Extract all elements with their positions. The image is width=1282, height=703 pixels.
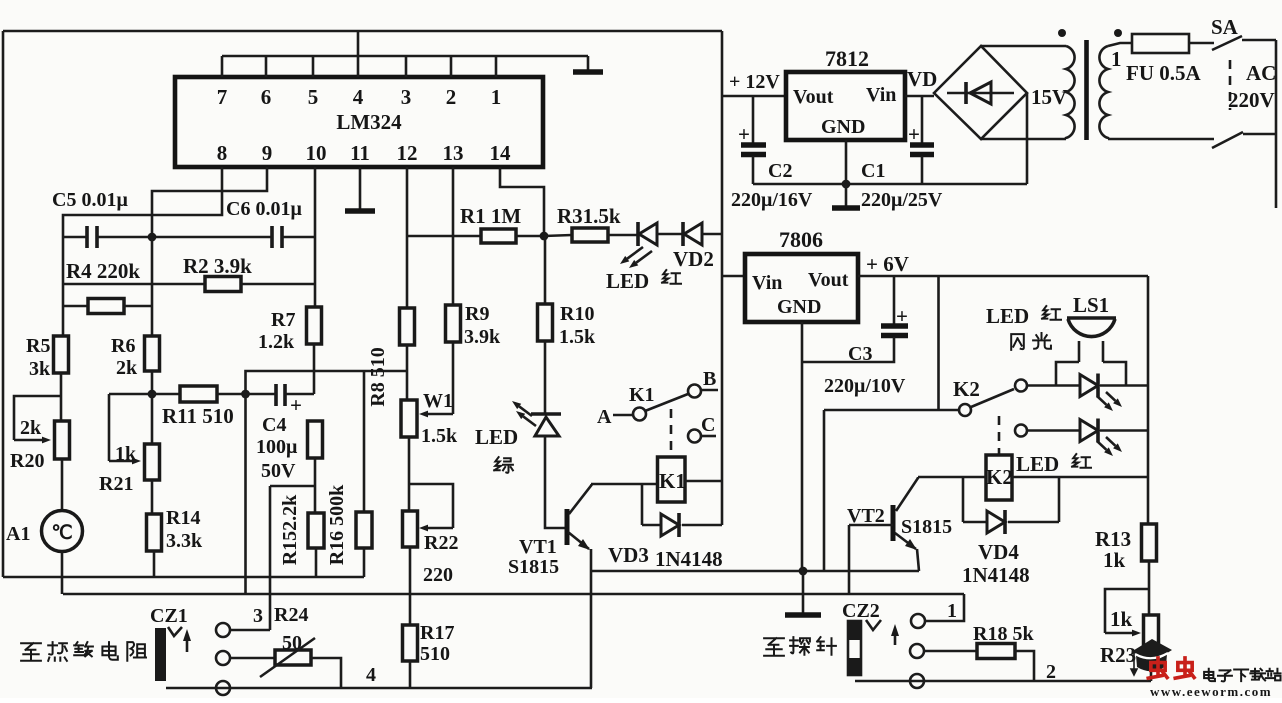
wire R16 down xyxy=(363,548,366,577)
watermark site char 4 xyxy=(1250,669,1265,681)
connector CZ2 hook contact xyxy=(866,620,881,630)
wire VT2 base column xyxy=(848,525,851,594)
wire corner to CZ1 pin3 column xyxy=(270,485,315,488)
transformer T1 core xyxy=(1084,40,1089,140)
diode VD4 xyxy=(987,511,1005,533)
resistor R4 xyxy=(88,299,124,314)
connector CZ1 pin bottom circle xyxy=(216,681,230,695)
wire mid row 2 xyxy=(63,593,964,596)
transistor VT2 base bar xyxy=(891,505,896,541)
wire collector row to K2 coil xyxy=(918,476,986,479)
wire fuse to SA xyxy=(1189,42,1214,45)
wire VD1 to VD2 xyxy=(657,233,684,236)
capacitor C6 xyxy=(272,226,282,248)
wire R18 right drop xyxy=(1015,651,1034,681)
potentiometer R23 xyxy=(1144,615,1159,648)
wire R11 row left xyxy=(109,393,180,396)
diode VD3 xyxy=(661,514,679,536)
svg-text:+ 12V: + 12V xyxy=(729,71,780,93)
svg-text:R31.5k: R31.5k xyxy=(557,204,621,228)
resistor R11 xyxy=(180,386,217,402)
wire rail to 7806 xyxy=(722,275,745,278)
LED2 emission arrow 2 xyxy=(1106,437,1115,446)
wire +6V row xyxy=(858,275,1148,278)
wire collector row to K1 xyxy=(591,483,657,486)
svg-text:VD3: VD3 xyxy=(608,543,649,567)
svg-text:R24: R24 xyxy=(274,604,308,626)
svg-text:R18 5k: R18 5k xyxy=(973,623,1034,645)
LED VD1 red xyxy=(636,222,640,246)
watermark site char 5 xyxy=(1266,669,1281,681)
transistor VT1 emitter arrowhead xyxy=(578,539,590,550)
potentiometer W1 wiper wire xyxy=(452,343,455,414)
svg-text:3.9k: 3.9k xyxy=(464,326,501,348)
wire W1 to R22 xyxy=(408,437,411,511)
svg-text:4: 4 xyxy=(366,664,376,686)
transformer phase dot secondary xyxy=(1058,29,1066,37)
potentiometer R21 xyxy=(145,444,160,480)
wire pin 4 to top frame xyxy=(357,31,360,77)
wire VT2 collector xyxy=(896,477,918,511)
wire R23 down xyxy=(1150,648,1153,681)
wire VT1 emitter xyxy=(568,532,589,549)
connector CZ1 jack body xyxy=(155,628,166,681)
resistor R5 xyxy=(54,336,69,373)
svg-text:2k: 2k xyxy=(116,357,138,379)
wire CZ2 pin1 xyxy=(925,594,964,621)
wire R4 row right xyxy=(124,305,152,308)
label zhi-re-min-dian-zu 5 xyxy=(127,642,146,661)
svg-text:C4: C4 xyxy=(262,414,286,436)
wire VT2 base xyxy=(849,524,893,527)
wire node to R3 xyxy=(544,235,572,236)
svg-text:Vin: Vin xyxy=(752,272,782,294)
wire VT1 collector xyxy=(569,484,592,514)
wire R8 to W1 xyxy=(406,345,409,400)
watermark site char 2 xyxy=(1218,670,1232,681)
svg-text:B: B xyxy=(703,368,716,390)
wire primary top to fuse xyxy=(1108,43,1132,46)
wire LED2 row xyxy=(1027,429,1080,432)
wire VD2 to rail xyxy=(702,233,722,236)
label zhi-re-min-dian-zu 1 xyxy=(21,643,41,661)
svg-text:11: 11 xyxy=(350,141,370,165)
potentiometer R23 bracket xyxy=(1105,589,1149,633)
wire C4 left xyxy=(245,393,276,396)
svg-text:GND: GND xyxy=(821,116,865,138)
wire R10 top xyxy=(544,236,547,304)
relay K2 contact circle 2 xyxy=(1015,425,1027,437)
wire VD3 row left xyxy=(642,524,661,527)
svg-text:A1: A1 xyxy=(6,523,30,545)
svg-text:Vout: Vout xyxy=(793,86,834,108)
wire VD4 row left xyxy=(963,521,987,524)
wire bridge to gnd row xyxy=(1026,93,1029,184)
ground power section xyxy=(845,184,848,208)
node R6-R11 xyxy=(148,390,157,399)
wire C2 top xyxy=(752,96,755,143)
svg-text:R17: R17 xyxy=(420,622,454,644)
wire pin 11 stub xyxy=(359,167,362,209)
wire VD3 row right xyxy=(682,524,722,527)
wire R7 to C4 node xyxy=(313,344,316,394)
wire R1 row left xyxy=(407,235,481,238)
wire R11 right xyxy=(217,393,245,396)
wire pin 6 stub xyxy=(265,56,268,77)
wire R12 to R15 xyxy=(314,486,317,513)
wire K2 pivot row xyxy=(824,409,958,412)
svg-text:VD: VD xyxy=(907,67,937,91)
svg-text:R16 500k: R16 500k xyxy=(326,484,348,565)
thermistor R24 xyxy=(275,650,311,665)
wire R17 down xyxy=(409,661,412,688)
svg-text:15V: 15V xyxy=(1031,85,1067,109)
svg-text:℃: ℃ xyxy=(51,523,72,544)
svg-text:R20: R20 xyxy=(10,450,44,472)
svg-text:+: + xyxy=(738,122,750,146)
resistor R18 xyxy=(977,644,1015,659)
wire R4 row left xyxy=(63,305,88,308)
bridge rectifier diamond xyxy=(934,46,1027,139)
resistor R10 xyxy=(538,304,553,341)
wire A stub xyxy=(613,414,633,417)
wire R1 to node xyxy=(516,235,544,238)
wire VD3 anode drop xyxy=(641,484,644,525)
svg-text:A: A xyxy=(597,406,612,428)
transformer phase dot primary xyxy=(1114,29,1122,37)
node C5-C6 junction xyxy=(148,233,157,242)
resistor R12 xyxy=(308,421,323,458)
wire K2 coil right row xyxy=(1012,476,1148,479)
label lv xyxy=(494,457,513,473)
label guang xyxy=(1033,333,1051,349)
svg-text:K1: K1 xyxy=(629,384,655,406)
svg-text:+: + xyxy=(290,393,302,417)
svg-text:C2: C2 xyxy=(768,160,792,182)
wire LED1 row xyxy=(1027,384,1080,387)
LED VD1 emission arrow 1 xyxy=(627,247,643,259)
wire gnd row power xyxy=(753,183,1027,186)
potentiometer R21 wiper arrow xyxy=(109,460,132,463)
potentiometer R22 xyxy=(403,511,418,547)
wire C5 to node xyxy=(97,236,272,239)
switch SA bottom blade xyxy=(1212,132,1243,148)
wire R3 to VD1 xyxy=(608,234,641,237)
wire VT2 emitter xyxy=(895,533,916,549)
svg-text:3: 3 xyxy=(401,85,412,109)
resistor R3 xyxy=(572,228,608,242)
label zhi-re-min-dian-zu 4 xyxy=(102,642,117,660)
relay coil K2 xyxy=(986,455,1012,500)
wire C1 bottom xyxy=(921,156,924,184)
connector CZ2 jack body xyxy=(848,621,861,675)
wire pin 3 stub xyxy=(405,56,408,77)
lamp LS1 stand xyxy=(1056,341,1126,385)
svg-text:50V: 50V xyxy=(261,460,296,482)
switch SA dashed link xyxy=(1229,60,1232,110)
label zhi-re-min-dian-zu 3 xyxy=(74,642,93,656)
svg-text:+: + xyxy=(896,304,908,328)
wire R24 right down xyxy=(311,658,341,688)
svg-text:220μ/10V: 220μ/10V xyxy=(824,375,906,397)
svg-text:R14: R14 xyxy=(166,507,200,529)
wire pin 12 to R8 xyxy=(406,167,409,308)
svg-text:LM324: LM324 xyxy=(336,110,402,134)
watermark site char 1 xyxy=(1204,669,1215,681)
svg-text:VD4: VD4 xyxy=(978,540,1019,564)
connector CZ2 pin 3 circle xyxy=(910,674,924,688)
svg-text:R10: R10 xyxy=(560,303,594,325)
svg-text:R21: R21 xyxy=(99,473,133,495)
svg-text:SA: SA xyxy=(1211,15,1239,39)
resistor R1 xyxy=(481,229,516,243)
svg-text:CZ2: CZ2 xyxy=(842,600,880,622)
svg-text:LED: LED xyxy=(475,425,518,449)
LED green symbol xyxy=(531,412,561,416)
connector CZ2 plug arrow xyxy=(894,631,897,645)
svg-text:R22: R22 xyxy=(424,532,458,554)
connector CZ2 pin 2 circle xyxy=(910,644,924,658)
svg-text:S1815: S1815 xyxy=(508,556,559,578)
wire 7812 GND pin xyxy=(845,140,848,184)
wire R13 to R23 xyxy=(1148,561,1151,615)
potentiometer R23 wiper arrow xyxy=(1105,632,1132,635)
svg-text:C6 0.01μ: C6 0.01μ xyxy=(226,198,302,220)
potentiometer R20 xyxy=(55,421,70,459)
svg-text:Vin: Vin xyxy=(866,84,896,106)
svg-text:3: 3 xyxy=(253,605,263,627)
wire top bus xyxy=(222,55,588,58)
resistor R8 xyxy=(400,308,415,345)
svg-text:R9: R9 xyxy=(465,303,489,325)
bridge rectifier internal diode xyxy=(947,92,1014,95)
potentiometer R21 bracket xyxy=(108,394,111,461)
svg-text:9: 9 xyxy=(262,141,273,165)
wire CZ1 pin3 to column xyxy=(230,629,270,632)
svg-text:LS1: LS1 xyxy=(1073,293,1109,317)
wire pin 9 xyxy=(152,167,267,237)
wire R14 down xyxy=(153,551,156,577)
wire pin 14 step xyxy=(500,167,544,236)
watermark site char 3 xyxy=(1234,670,1248,682)
relay K2 blade xyxy=(971,389,1014,407)
label zhi-tan-zhen 3 xyxy=(817,637,836,655)
svg-text:CZ1: CZ1 xyxy=(150,605,188,627)
svg-text:R11 510: R11 510 xyxy=(162,404,234,428)
svg-text:1.2k: 1.2k xyxy=(258,331,295,353)
wire rail to 7812 xyxy=(722,95,786,98)
connector CZ1 pin mid circle xyxy=(216,651,230,665)
svg-text:K2: K2 xyxy=(953,377,980,401)
relay K2 contact circle 1 xyxy=(1015,380,1027,392)
relay contact C circle xyxy=(688,430,701,443)
op-amp U1 LM324 body xyxy=(175,77,543,167)
svg-text:LED: LED xyxy=(986,304,1029,328)
relay contact A circle xyxy=(633,408,646,421)
wire CZ2 pin2 to R18 xyxy=(924,650,977,653)
label zhi-tan-zhen 2 xyxy=(790,637,810,655)
svg-text:GND: GND xyxy=(777,296,821,318)
wire pin 7 stub xyxy=(221,56,224,77)
wire C stub xyxy=(701,435,716,438)
svg-text:1.5k: 1.5k xyxy=(559,326,596,348)
wire C1 top xyxy=(921,96,924,143)
label zhi-tan-zhen 1 xyxy=(764,638,784,656)
wire top frame xyxy=(3,30,722,33)
svg-text:R7: R7 xyxy=(271,309,295,331)
wire C5 left xyxy=(63,236,87,239)
wire LED green to VT1 base xyxy=(545,436,566,528)
resistor R7 xyxy=(307,307,322,344)
svg-text:R1 1M: R1 1M xyxy=(460,204,521,228)
resistor R9 xyxy=(446,305,461,342)
wire node to R21 xyxy=(151,394,154,444)
svg-text:Vout: Vout xyxy=(808,269,849,291)
svg-text:LED: LED xyxy=(606,269,649,293)
wire R15 down xyxy=(315,548,318,577)
wire C6 right xyxy=(282,236,315,239)
wire +12V rail right xyxy=(721,31,724,525)
svg-text:100μ: 100μ xyxy=(256,436,298,458)
svg-text:12: 12 xyxy=(397,141,418,165)
wire R13 column top xyxy=(1147,276,1150,524)
wire pin 10 to R7 xyxy=(314,167,317,307)
wire row 371 xyxy=(246,371,408,394)
rheostat R20 wiper arrow xyxy=(14,439,42,442)
node ground junction xyxy=(799,567,808,576)
transistor VT2 emitter arrowhead xyxy=(905,539,917,550)
regulator 7806 body xyxy=(745,254,858,322)
wire SA to right edge top xyxy=(1242,39,1276,42)
svg-text:1k: 1k xyxy=(1103,548,1126,572)
svg-text:3k: 3k xyxy=(29,358,51,380)
label LED hong top 1 xyxy=(1042,306,1061,320)
resistor R2 xyxy=(205,277,241,292)
wire ground row left xyxy=(3,576,364,579)
wire 7806 GND column xyxy=(801,322,804,571)
svg-text:R6: R6 xyxy=(111,335,135,357)
wire C3 bottom xyxy=(802,337,894,362)
svg-text:6: 6 xyxy=(261,85,272,109)
ground at pin 11 xyxy=(345,208,375,214)
LED green emission arrow 2 xyxy=(523,416,536,426)
wire R12 to corner xyxy=(314,458,317,486)
wire VT1 emitter row xyxy=(591,570,919,573)
svg-text:S1815: S1815 xyxy=(901,516,952,538)
svg-text:1.5k: 1.5k xyxy=(421,425,458,447)
wire CZ1 bottom row xyxy=(166,687,592,690)
svg-text:R8 510: R8 510 xyxy=(367,347,389,406)
wire pin 8 xyxy=(63,167,222,336)
wire VD4 right rise xyxy=(1058,477,1061,522)
wire R22 to R17 xyxy=(409,547,412,625)
connector CZ1 pin 3 circle xyxy=(216,623,230,637)
svg-text:www.eeworm.com: www.eeworm.com xyxy=(1150,684,1272,698)
resistor R6 xyxy=(145,336,160,371)
resistor R16 xyxy=(356,512,372,548)
svg-text:14: 14 xyxy=(490,141,512,165)
wire K1 coil right to rail xyxy=(685,480,722,483)
transformer T1 primary winding xyxy=(1099,46,1108,139)
svg-text:R5: R5 xyxy=(26,335,50,357)
wire +6V to K2 pivot xyxy=(937,276,940,410)
wire R2 right xyxy=(241,283,315,286)
svg-text:W1: W1 xyxy=(423,390,453,412)
potentiometer R22 bracket xyxy=(409,484,453,528)
wire R5 to R20 node xyxy=(60,373,63,421)
node R11-C4 xyxy=(241,390,250,399)
potentiometer R22 wiper arrow xyxy=(428,527,453,530)
wire LED1 to R13 column xyxy=(1100,384,1148,387)
watermark chong 1 xyxy=(1148,658,1167,678)
wire C2 bottom xyxy=(752,156,755,184)
svg-text:2: 2 xyxy=(446,85,457,109)
label zhi-re-min-dian-zu 2 xyxy=(48,642,67,661)
switch SA top blade xyxy=(1212,36,1242,50)
node R1-R3-R10 xyxy=(540,232,549,241)
svg-text:220: 220 xyxy=(423,564,453,586)
wire C4 right xyxy=(285,393,314,396)
transformer T1 secondary winding xyxy=(981,46,1066,139)
svg-text:5: 5 xyxy=(308,85,319,109)
svg-text:C5 0.01μ: C5 0.01μ xyxy=(52,189,128,211)
potentiometer W1 xyxy=(401,400,417,437)
svg-text:7812: 7812 xyxy=(825,46,869,71)
svg-text:VT1: VT1 xyxy=(519,536,557,558)
connector CZ1 plug arrow xyxy=(186,636,189,652)
transistor VT1 base bar xyxy=(565,509,570,545)
svg-text:1k: 1k xyxy=(115,443,137,465)
wire pin 13 to R9 xyxy=(452,167,455,305)
svg-text:AC: AC xyxy=(1246,61,1276,85)
resistor R17 xyxy=(403,625,418,661)
resistor R15 xyxy=(308,513,324,548)
wire CZ2 bottom row xyxy=(855,680,1151,683)
wire A1 down xyxy=(61,551,64,594)
svg-text:K1: K1 xyxy=(659,469,686,493)
resistor R13 xyxy=(1142,524,1157,561)
lamp LS1 dome xyxy=(1067,318,1116,337)
svg-text:R152.2k: R152.2k xyxy=(279,494,301,565)
wire 7812 Vin to bridge xyxy=(905,95,934,98)
LED2 red xyxy=(1080,420,1098,442)
LED1 emission arrow 1 xyxy=(1097,396,1106,405)
wire CZ1 mid to R24 xyxy=(230,657,275,660)
svg-text:C1: C1 xyxy=(861,160,885,182)
svg-text:2k: 2k xyxy=(20,417,42,439)
svg-text:220V: 220V xyxy=(1228,88,1275,112)
svg-text:7: 7 xyxy=(217,85,228,109)
LED VD1 emission arrow 2 xyxy=(636,251,652,263)
svg-text:C3: C3 xyxy=(848,343,872,365)
svg-text:510: 510 xyxy=(420,643,450,665)
label hong bottom xyxy=(1072,454,1091,468)
node 7812 gnd xyxy=(842,180,851,189)
wire R10 to LED green xyxy=(544,341,547,413)
wire VT1 emitter column xyxy=(590,549,593,688)
relay coil K1 xyxy=(658,457,686,502)
wire right edge vertical xyxy=(1275,40,1278,208)
diode VD2 xyxy=(681,222,685,246)
wire LED2 to R13 column xyxy=(1100,429,1148,432)
wire pin 5 stub xyxy=(312,56,315,77)
svg-text:LED: LED xyxy=(1016,452,1059,476)
wire pin 1 stub xyxy=(495,56,498,77)
capacitor C4 xyxy=(276,384,285,406)
wire left frame xyxy=(2,31,5,577)
relay K1 dashed link xyxy=(670,409,673,455)
svg-text:1: 1 xyxy=(1111,47,1122,71)
